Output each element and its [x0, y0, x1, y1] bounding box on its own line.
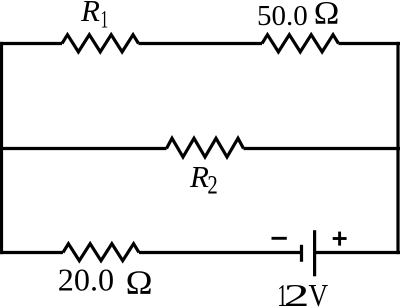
- svg-text:2: 2: [207, 171, 217, 200]
- wire bottom-left segment: [0, 251, 63, 254]
- svg-text:R: R: [189, 159, 209, 194]
- label R2: [189, 159, 218, 200]
- wire right vertical: [396, 42, 399, 254]
- resistor 50.0 ohm: [262, 35, 339, 52]
- battery minus sign: [272, 237, 287, 240]
- resistor R1: [62, 35, 139, 52]
- label 12 V: [277, 278, 328, 307]
- svg-text:2: 2: [284, 279, 310, 307]
- svg-text:50.0: 50.0: [257, 0, 308, 32]
- wire middle-right segment: [244, 147, 400, 150]
- wire bottom to battery: [139, 251, 301, 254]
- svg-text:1: 1: [101, 6, 109, 34]
- battery plus sign: [333, 232, 347, 246]
- wire left vertical: [0, 42, 3, 254]
- svg-text:R: R: [80, 0, 100, 28]
- svg-text:Ω: Ω: [314, 0, 340, 31]
- label 50.0 ohm: [257, 0, 339, 32]
- wire top-left segment: [0, 42, 62, 45]
- resistor R2: [167, 138, 244, 157]
- svg-text:Ω: Ω: [126, 263, 153, 301]
- battery negative plate (short): [300, 245, 303, 262]
- resistor 20.0 ohm: [63, 244, 139, 261]
- svg-text:V: V: [309, 280, 329, 307]
- label 20.0 ohm: [58, 262, 153, 301]
- svg-text:20.0: 20.0: [58, 262, 114, 298]
- wire top-right segment: [339, 42, 400, 45]
- wire middle-left segment: [0, 147, 167, 150]
- label R1: [80, 0, 108, 33]
- wire top-middle segment: [139, 42, 263, 45]
- wire battery to bottom-right: [315, 251, 400, 254]
- battery positive plate (long): [313, 230, 316, 276]
